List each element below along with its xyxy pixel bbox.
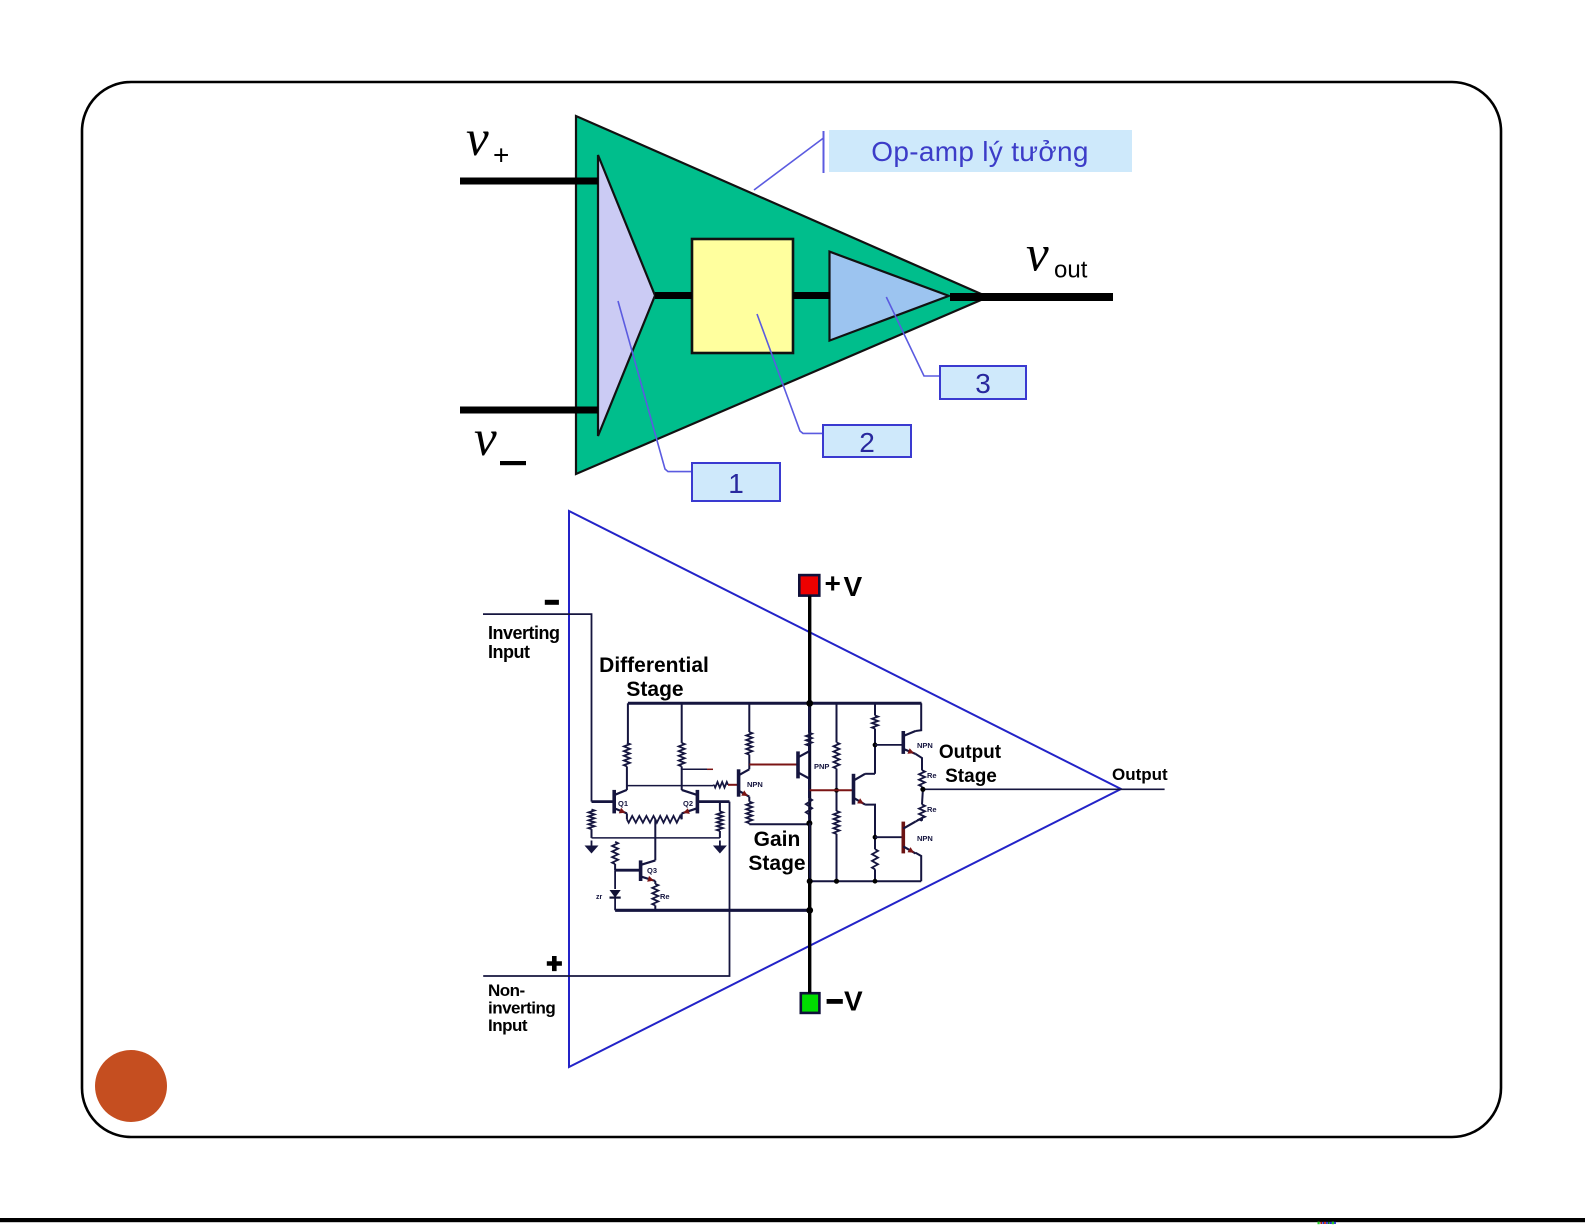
wire top NPN emitter — [916, 754, 923, 770]
callout label 3 — [886, 297, 1026, 399]
wire bottom NPN top lead — [916, 818, 923, 822]
resistor RE2 — [655, 816, 681, 823]
plus polarity mark — [547, 956, 562, 971]
+V terminal (red square) — [799, 568, 862, 602]
label Non-inverting Input — [488, 981, 555, 1035]
label Gain Stage — [748, 828, 805, 875]
bottom rule line — [0, 1218, 1585, 1222]
node output node — [920, 787, 925, 792]
resistor R9 — [806, 733, 812, 746]
wire Q3 base lead — [615, 869, 641, 872]
wire R11 to cross — [836, 769, 838, 811]
resistor R8 — [746, 802, 752, 824]
ground — [585, 841, 599, 854]
node bias bottom — [834, 879, 839, 884]
node base node bottom — [873, 835, 878, 840]
wire NPN base red lead — [713, 784, 739, 787]
wire R14 join — [874, 837, 876, 849]
resistor R11 — [834, 742, 840, 768]
wire Q3 emitter drop — [654, 881, 656, 884]
label Output Stage — [939, 742, 1002, 787]
wire output vout — [950, 293, 1113, 301]
resistor Rb2 — [717, 811, 723, 831]
stage 3 (blue triangle) — [830, 252, 949, 341]
wire stage1 to stage2 — [655, 292, 692, 299]
wire R11 drop — [836, 703, 838, 742]
resistor Re3 — [652, 884, 658, 906]
wire NPN collector up — [748, 755, 750, 770]
wire +V top bus — [628, 702, 922, 705]
wire output-stage bottom rail — [810, 880, 922, 882]
node gain bottom node — [806, 820, 812, 826]
wire stub tip — [707, 768, 713, 770]
wire R1 drop — [627, 703, 629, 743]
resistor RE1 — [627, 816, 655, 823]
wire bias rail — [592, 837, 720, 839]
wire Q1 collector tap — [627, 785, 713, 787]
wire R8 to rail — [748, 823, 750, 824]
op-amp body (green triangle) — [576, 116, 988, 474]
wire inverting input — [483, 614, 592, 802]
stage 2 (yellow block) — [692, 239, 793, 353]
resistor R1 — [624, 743, 630, 767]
wire Rb2 to rail — [719, 831, 721, 838]
transistor driver — [854, 774, 866, 805]
resistor Rb1 — [589, 810, 595, 830]
label vout — [1026, 227, 1088, 284]
transistor NPN top — [903, 731, 933, 754]
label Output — [1112, 765, 1168, 784]
wire Rb1 to rail — [591, 829, 593, 838]
wire Re top to out — [921, 787, 924, 790]
transistor Q3 — [641, 860, 657, 881]
transistor Q2 — [682, 790, 698, 814]
transistor NPN bottom — [903, 822, 933, 854]
callout box: Op-amp ly tuong — [754, 130, 1132, 190]
node rail junction top — [806, 700, 813, 707]
wire R9 to bus — [808, 703, 810, 732]
resistor R10 — [806, 798, 812, 814]
stage 1 (purple triangle) — [598, 155, 655, 436]
resistor R12 — [834, 811, 840, 834]
tiny colored footer specks — [1318, 1222, 1336, 1225]
wire R7 to bus — [748, 703, 750, 732]
callout label 1 — [618, 301, 780, 501]
resistor Re bottom — [919, 805, 925, 821]
-V terminal (green square) — [801, 986, 863, 1017]
label Differential Stage — [599, 654, 709, 701]
transistor Q1 — [614, 790, 628, 814]
resistor R2 — [679, 743, 685, 767]
node base node top — [873, 743, 878, 748]
wire Q2 collector stub — [682, 768, 707, 770]
wire Q1 base lead — [592, 800, 615, 803]
node rail junction bottom — [806, 907, 813, 914]
wire driver emitter lead — [865, 805, 875, 838]
wire R10 to node — [808, 814, 810, 823]
wire -V rail — [808, 823, 811, 993]
wire driver collector lead — [865, 773, 875, 775]
wire stage2 to stage3 — [793, 292, 830, 299]
wire R2 to Q2 collector — [681, 766, 683, 790]
wire tail — [654, 819, 656, 860]
wire Rb2 drop — [719, 802, 721, 812]
wire out to Re bottom — [921, 789, 924, 804]
wire Q1 emitter drop — [626, 813, 628, 819]
minus polarity mark — [545, 600, 559, 605]
wire NPN emitter down — [748, 797, 750, 802]
node output rail joint — [873, 879, 878, 884]
ground — [713, 841, 727, 854]
wire top NPN collector — [916, 703, 922, 731]
zener diode ZR — [596, 870, 621, 910]
wire R14 to rail — [874, 869, 876, 881]
wire driver base red — [810, 789, 854, 791]
label v- — [474, 411, 526, 467]
wire R2 drop — [681, 703, 683, 743]
node rail junction mid — [807, 878, 813, 884]
op-amp outline triangle — [569, 511, 1121, 1067]
callout label 2 — [757, 314, 911, 458]
wire node to bottom bus — [809, 823, 811, 881]
wire v+ input — [460, 178, 598, 185]
resistor R13 — [872, 716, 878, 729]
wire NPN collector to PNP base — [749, 764, 798, 766]
label Inverting Input — [488, 623, 560, 662]
wire R1 to Q1 collector — [626, 766, 628, 790]
wire Rz to base — [614, 864, 616, 870]
wire Q2 base lead — [697, 800, 729, 803]
wire PNP collector down — [808, 778, 810, 798]
wire bottom NPN down — [916, 853, 922, 882]
wire mid rail — [808, 703, 811, 823]
wire non-inverting input — [483, 802, 729, 976]
transistor PNP — [798, 751, 829, 778]
wire PNP emitter up — [808, 746, 810, 752]
wire +V rail — [808, 596, 811, 704]
label v+ — [466, 111, 509, 171]
wire R12 to bus — [836, 834, 838, 881]
wire -V bottom bus — [615, 909, 811, 912]
wire Q2 emitter drop — [681, 813, 683, 819]
wire column upper — [874, 729, 876, 774]
wire top NPN base lead — [875, 744, 903, 746]
wire v- input — [460, 407, 598, 414]
slide border frame — [82, 82, 1501, 1137]
transistor NPN gain — [739, 769, 763, 796]
resistor Rbase NPN — [714, 782, 728, 788]
wire output — [923, 788, 1165, 790]
wire gain-stage emitter rail — [749, 823, 809, 825]
resistor Re top — [919, 770, 925, 786]
resistor R7 — [746, 732, 752, 755]
resistor Rz — [612, 842, 618, 864]
node bias cross — [834, 788, 839, 793]
wire bottom NPN base lead — [875, 836, 903, 838]
resistor R14 — [872, 849, 878, 869]
wire R13 drop — [874, 703, 876, 715]
wire Re3 to bus — [654, 905, 656, 910]
